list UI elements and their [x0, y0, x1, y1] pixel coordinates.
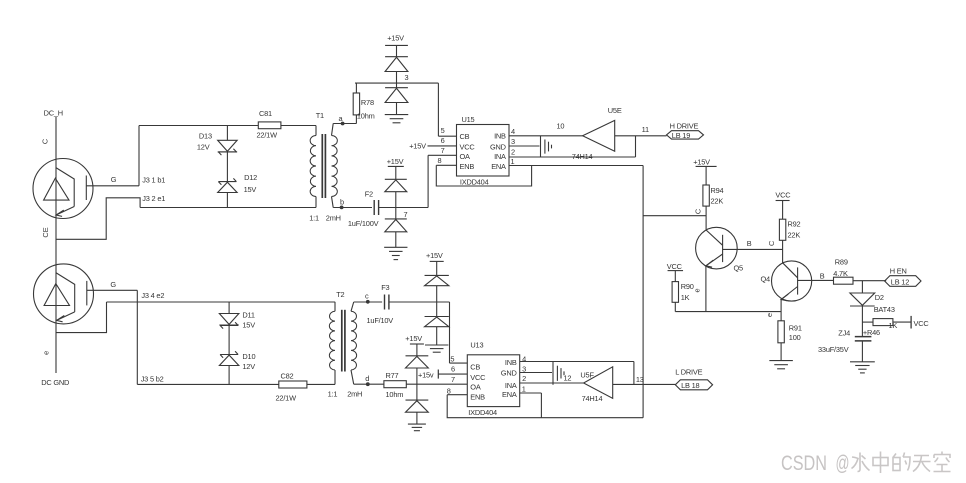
svg-text:4: 4 [511, 127, 515, 136]
pin 8 U13 [447, 386, 468, 395]
svg-text:B: B [747, 239, 752, 248]
svg-text:100: 100 [789, 333, 801, 342]
node 3 label [405, 73, 409, 82]
svg-text:F2: F2 [365, 190, 373, 199]
wire R91 to ground [780, 343, 782, 361]
diode clamp B upper [385, 179, 407, 219]
wire enable bus vertical [642, 166, 644, 418]
svg-text:VCC: VCC [775, 190, 791, 199]
zener D12 15V [218, 152, 257, 208]
wire gate2 [87, 289, 138, 291]
svg-text:@: @ [836, 451, 850, 475]
svg-text:ENB: ENB [460, 162, 475, 171]
svg-text:T2: T2 [336, 290, 344, 299]
pin 7 U13 [451, 375, 455, 384]
capacitor F2 1uF/100V [348, 190, 379, 228]
pin label C (Q4) [767, 240, 776, 246]
zener D11 15V [219, 302, 255, 330]
svg-text:CE: CE [41, 227, 50, 237]
zener D13 12V [197, 126, 237, 156]
svg-text:R94: R94 [711, 186, 724, 195]
svg-text:74H14: 74H14 [572, 152, 593, 161]
svg-text:1uF/100V: 1uF/100V [348, 219, 379, 228]
svg-text:C: C [767, 240, 776, 246]
svg-text:VCC: VCC [914, 319, 930, 328]
label 10 [557, 121, 565, 130]
pin label e (Q5) [693, 288, 702, 292]
diode clamp B lower [385, 219, 407, 247]
svg-text:33uF/35V: 33uF/35V [818, 345, 849, 354]
svg-text:IXDD404: IXDD404 [468, 408, 497, 417]
node d [354, 374, 384, 386]
net label J3 4 e2 [141, 291, 164, 300]
svg-text:1:1: 1:1 [328, 389, 338, 398]
svg-text:G: G [110, 280, 116, 289]
svg-text:4.7K: 4.7K [833, 269, 848, 278]
transistor Q5 [696, 227, 743, 272]
svg-text:J3 2 e1: J3 2 e1 [142, 194, 165, 203]
transformer T1 [309, 111, 341, 223]
svg-text:D12: D12 [244, 173, 257, 182]
pin label e (Q4) [765, 313, 774, 317]
svg-text:R77: R77 [386, 371, 399, 380]
power +15V (clamp C) [426, 251, 444, 275]
wire b1 rail left [139, 125, 258, 127]
pin label G (IGBT2 gate) [110, 280, 116, 289]
power VCC (R92) [775, 190, 791, 219]
power +15V (R94) [693, 158, 716, 185]
pin label C (Q5) [694, 208, 703, 214]
svg-text:D13: D13 [199, 131, 212, 140]
svg-text:CSDN: CSDN [781, 451, 827, 475]
label 13 [636, 375, 644, 384]
svg-text:8: 8 [438, 156, 442, 165]
ground (U13 GND pin, sideways) [553, 362, 564, 385]
svg-text:15V: 15V [244, 185, 257, 194]
svg-text:VCC: VCC [460, 142, 476, 151]
capacitor F3 1uF/10V [367, 283, 394, 325]
op-amp U5E 74H14 [572, 106, 622, 161]
svg-text:VCC: VCC [667, 262, 683, 271]
ground (R91) [769, 361, 793, 369]
op-amp U13 IXDD404 body [467, 341, 519, 417]
wire Q4 emitter [780, 300, 782, 321]
port L_DRIVE LB 18 [675, 368, 712, 390]
svg-text:d: d [365, 374, 369, 383]
wire e2 rail [107, 301, 336, 303]
svg-text:D10: D10 [242, 352, 255, 361]
svg-text:1uF/10V: 1uF/10V [367, 316, 394, 325]
svg-text:CB: CB [470, 363, 480, 372]
pin 6 U13 +15V [418, 365, 467, 380]
wire emitter rail [675, 302, 781, 311]
watermark chinese glyphs [852, 452, 951, 474]
wire ENA rail [509, 165, 643, 167]
diode clamp C lower [425, 317, 449, 346]
svg-text:OA: OA [470, 382, 481, 391]
svg-text:10hm: 10hm [386, 390, 404, 399]
svg-text:LB 12: LB 12 [891, 277, 909, 286]
resistor R92 22K [779, 219, 800, 240]
svg-text:R90: R90 [681, 282, 694, 291]
pin 7 U15 [428, 146, 456, 156]
svg-text:CB: CB [460, 132, 470, 141]
wire H drive tap [635, 136, 637, 157]
transistor IGBT1 [33, 159, 93, 219]
pin 2 U15 [511, 147, 515, 156]
power +15V (clamp A) [385, 33, 408, 56]
svg-text:10: 10 [557, 121, 565, 130]
svg-text:12: 12 [564, 374, 572, 383]
watermark CSDN [781, 451, 850, 475]
svg-text:U13: U13 [470, 341, 483, 350]
wire DC bus vertical [55, 117, 57, 373]
resistor R78 10hm [353, 83, 374, 123]
net label DC_GND [41, 378, 69, 387]
svg-text:B: B [820, 271, 825, 280]
wire e2 to emitter step [56, 302, 107, 333]
power +15V (clamp D) [405, 334, 424, 356]
ground (clamp D) [408, 424, 426, 431]
label 12 [564, 374, 572, 383]
pin 1 U13 [520, 384, 542, 393]
transistor IGBT2 [34, 264, 94, 324]
pin 3 U13 [520, 365, 552, 374]
node 7 label [404, 210, 408, 219]
svg-text:INB: INB [494, 132, 506, 141]
svg-text:2mH: 2mH [347, 389, 362, 398]
power VCC (R90) [667, 262, 683, 282]
op-amp U15 IXDD404 body [457, 115, 510, 186]
svg-text:H EN: H EN [890, 267, 907, 276]
svg-text:15V: 15V [242, 321, 255, 330]
svg-text:3: 3 [405, 73, 409, 82]
pin 5 U13 [450, 354, 468, 363]
svg-text:c: c [365, 292, 369, 301]
svg-text:INA: INA [494, 152, 506, 161]
pin label G (IGBT1 gate) [111, 175, 117, 184]
svg-text:1:1: 1:1 [309, 214, 319, 223]
svg-text:R91: R91 [789, 323, 802, 332]
svg-text:Q4: Q4 [761, 274, 771, 283]
wire R46 to VCC [893, 321, 911, 323]
svg-text:ENA: ENA [491, 162, 506, 171]
svg-text:+15V: +15V [409, 142, 426, 151]
node c [354, 292, 382, 304]
wire R78 top to U15 pin5 [355, 83, 438, 136]
svg-text:e: e [693, 288, 702, 292]
pin 8 U15 [436, 156, 456, 166]
svg-text:e: e [765, 313, 774, 317]
wire INA to H net [509, 156, 636, 158]
svg-text:b: b [340, 197, 344, 206]
wire R92 to Q4 collector [782, 240, 784, 263]
svg-text:74H14: 74H14 [582, 394, 603, 403]
svg-text:LB 18: LB 18 [681, 381, 699, 390]
pin label CE [41, 227, 50, 237]
svg-text:+15V: +15V [426, 251, 443, 260]
svg-text:D11: D11 [242, 311, 254, 320]
svg-text:22K: 22K [788, 231, 801, 240]
transformer T2 [328, 290, 363, 398]
svg-text:7: 7 [404, 210, 408, 219]
label 11 [642, 125, 649, 134]
resistor C82 22/1W [276, 372, 307, 403]
wire e1 rail [140, 207, 316, 209]
pin label B (Q4) [820, 271, 825, 280]
svg-text:7: 7 [441, 146, 445, 155]
pin 3 U15 [509, 137, 540, 146]
ground (clamp C) [425, 345, 448, 352]
wire b2 rail left [137, 383, 278, 385]
svg-text:VCC: VCC [470, 373, 486, 382]
node a [333, 114, 356, 126]
wire D2 anode [861, 281, 863, 293]
port H_DRIVE LB 19 [667, 122, 704, 140]
svg-text:C82: C82 [281, 372, 294, 381]
svg-text:12V: 12V [242, 362, 255, 371]
svg-text:1: 1 [511, 157, 515, 166]
svg-text:Q5: Q5 [734, 263, 744, 272]
svg-text:5: 5 [450, 354, 454, 363]
ground (clamp A) [385, 115, 409, 123]
diode clamp A upper [385, 57, 408, 88]
svg-text:T1: T1 [316, 111, 324, 120]
diode clamp C upper [425, 275, 449, 316]
svg-text:C: C [694, 208, 703, 214]
svg-text:2: 2 [511, 147, 515, 156]
svg-text:DC_H: DC_H [44, 109, 63, 118]
svg-text:D2: D2 [875, 293, 884, 302]
svg-text:10hm: 10hm [357, 111, 375, 120]
ground (clamp B) [384, 247, 407, 259]
diode clamp D lower [406, 384, 429, 424]
svg-text:ENA: ENA [502, 390, 517, 399]
svg-text:GND: GND [501, 369, 517, 378]
svg-text:IXDD404: IXDD404 [460, 177, 489, 186]
capacitor ZJ4 33uF/35V [818, 329, 871, 354]
wire INA to inverter input [520, 382, 584, 384]
wire R94 to Q5 collector [705, 206, 707, 230]
svg-text:3: 3 [511, 137, 515, 146]
wire gate1 [86, 185, 139, 187]
svg-text:13: 13 [636, 375, 644, 384]
svg-text:22K: 22K [711, 197, 724, 206]
wire F2 to U15 pin7 [379, 155, 429, 207]
pin 4 U15 [511, 127, 515, 136]
pin 6 U15 +15V [409, 136, 456, 150]
wire F3 to U13 pin5 [389, 302, 450, 363]
ground (U15 GND pin, sideways) [541, 136, 552, 158]
svg-text:R89: R89 [835, 258, 848, 267]
svg-text:6: 6 [441, 136, 445, 145]
transistor Q4 [761, 261, 812, 301]
svg-text:8: 8 [447, 386, 451, 395]
ground (ZJ4) [850, 362, 875, 373]
svg-text:C: C [41, 138, 50, 144]
wire R89 to H_EN [853, 280, 886, 282]
svg-text:LB 19: LB 19 [672, 131, 690, 140]
wire b1 rail right [281, 125, 316, 127]
svg-text:+15V: +15V [387, 33, 404, 42]
node b [333, 197, 372, 209]
svg-text:GND: GND [490, 142, 506, 151]
svg-text:OA: OA [460, 152, 471, 161]
wire gate1 riser [138, 126, 140, 186]
net label DC_H [44, 109, 63, 118]
svg-text:11: 11 [642, 125, 649, 134]
wire Q5 emitter [705, 266, 707, 312]
diode clamp D upper [406, 356, 429, 384]
resistor C81 22/1W [257, 109, 281, 139]
svg-text:F3: F3 [381, 283, 389, 292]
net label J3 2 e1 [142, 194, 165, 203]
svg-text:7: 7 [451, 375, 455, 384]
pin 4 U13 [522, 354, 526, 363]
net label J3 1 b1 [142, 175, 165, 184]
svg-text:J3 5 b2: J3 5 b2 [141, 375, 164, 384]
resistor R89 4.7K [833, 258, 853, 285]
wire b2 rail right [307, 383, 335, 385]
wire ENB-ENA loop U13 [447, 393, 643, 418]
svg-text:R92: R92 [788, 219, 801, 228]
pin 2 U13 [522, 374, 526, 383]
wire e1 to emitter step [56, 198, 140, 240]
svg-text:+15V: +15V [693, 158, 710, 167]
svg-text:C81: C81 [259, 109, 272, 118]
wire U5E input [615, 135, 667, 137]
wire U5F input [613, 383, 676, 385]
svg-text:3: 3 [522, 365, 526, 374]
port H_EN LB 12 [885, 267, 921, 287]
wire Q5 base [723, 248, 783, 250]
svg-text:2: 2 [522, 374, 526, 383]
resistor R90 1K [672, 282, 694, 303]
diode D2 BAT43 [850, 293, 895, 314]
svg-text:2mH: 2mH [326, 214, 341, 223]
svg-text:5: 5 [441, 126, 445, 135]
svg-text:+R46: +R46 [863, 328, 880, 337]
pin label B (Q5) [747, 239, 752, 248]
diode clamp A lower [385, 88, 408, 115]
svg-text:ZJ4: ZJ4 [838, 329, 850, 338]
resistor R94 22K [703, 185, 724, 206]
svg-text:1K: 1K [681, 293, 690, 302]
svg-text:G: G [111, 175, 117, 184]
wire D2 to R46 node [862, 306, 873, 337]
svg-text:DC GND: DC GND [41, 378, 69, 387]
zener D10 12V [219, 325, 255, 384]
svg-text:INB: INB [505, 358, 517, 367]
wire INB to inverter output [509, 135, 583, 137]
wire R77 to U13 pin7 [406, 383, 467, 385]
wire gate2 dropper [136, 290, 138, 384]
svg-text:6: 6 [451, 365, 455, 374]
svg-text:ENB: ENB [470, 393, 485, 402]
resistor R77 10hm [384, 371, 406, 399]
svg-text:J3 4 e2: J3 4 e2 [141, 291, 164, 300]
svg-text:1: 1 [522, 384, 526, 393]
power +15V (clamp B) [387, 157, 404, 179]
svg-text:12V: 12V [197, 143, 210, 152]
svg-text:22/1W: 22/1W [257, 130, 278, 139]
svg-text:L DRIVE: L DRIVE [675, 368, 702, 377]
svg-text:U5E: U5E [608, 106, 622, 115]
wire Q4 base [798, 279, 834, 281]
svg-text:U5F: U5F [580, 370, 594, 379]
resistor R46 1K [863, 319, 898, 337]
pin label e (IGBT2) [42, 351, 51, 355]
wire ZJ4 to ground [861, 341, 863, 362]
wire ENB-ENA loop U15 [436, 165, 531, 186]
svg-text:22/1W: 22/1W [276, 393, 297, 402]
op-amp U5F 74H14 [580, 367, 612, 403]
power VCC (R46) [911, 316, 929, 329]
wire enable to Q5 collector [643, 215, 706, 217]
svg-text:H DRIVE: H DRIVE [670, 122, 699, 131]
svg-text:+15V: +15V [387, 157, 404, 166]
svg-text:+15v: +15v [418, 370, 434, 379]
pin 5 U15 [438, 126, 456, 136]
svg-text:U15: U15 [462, 115, 475, 124]
wire INB to L net [520, 362, 634, 385]
svg-text:BAT43: BAT43 [874, 305, 895, 314]
svg-text:INA: INA [505, 381, 517, 390]
pin 1 U15 [511, 157, 515, 166]
svg-text:J3 1 b1: J3 1 b1 [142, 175, 165, 184]
net label J3 5 b2 [141, 375, 164, 384]
svg-text:R78: R78 [361, 98, 374, 107]
pin label C (IGBT1 collector) [41, 138, 50, 144]
svg-text:+15V: +15V [405, 334, 422, 343]
svg-text:e: e [42, 351, 51, 355]
resistor R91 100 [778, 321, 802, 343]
